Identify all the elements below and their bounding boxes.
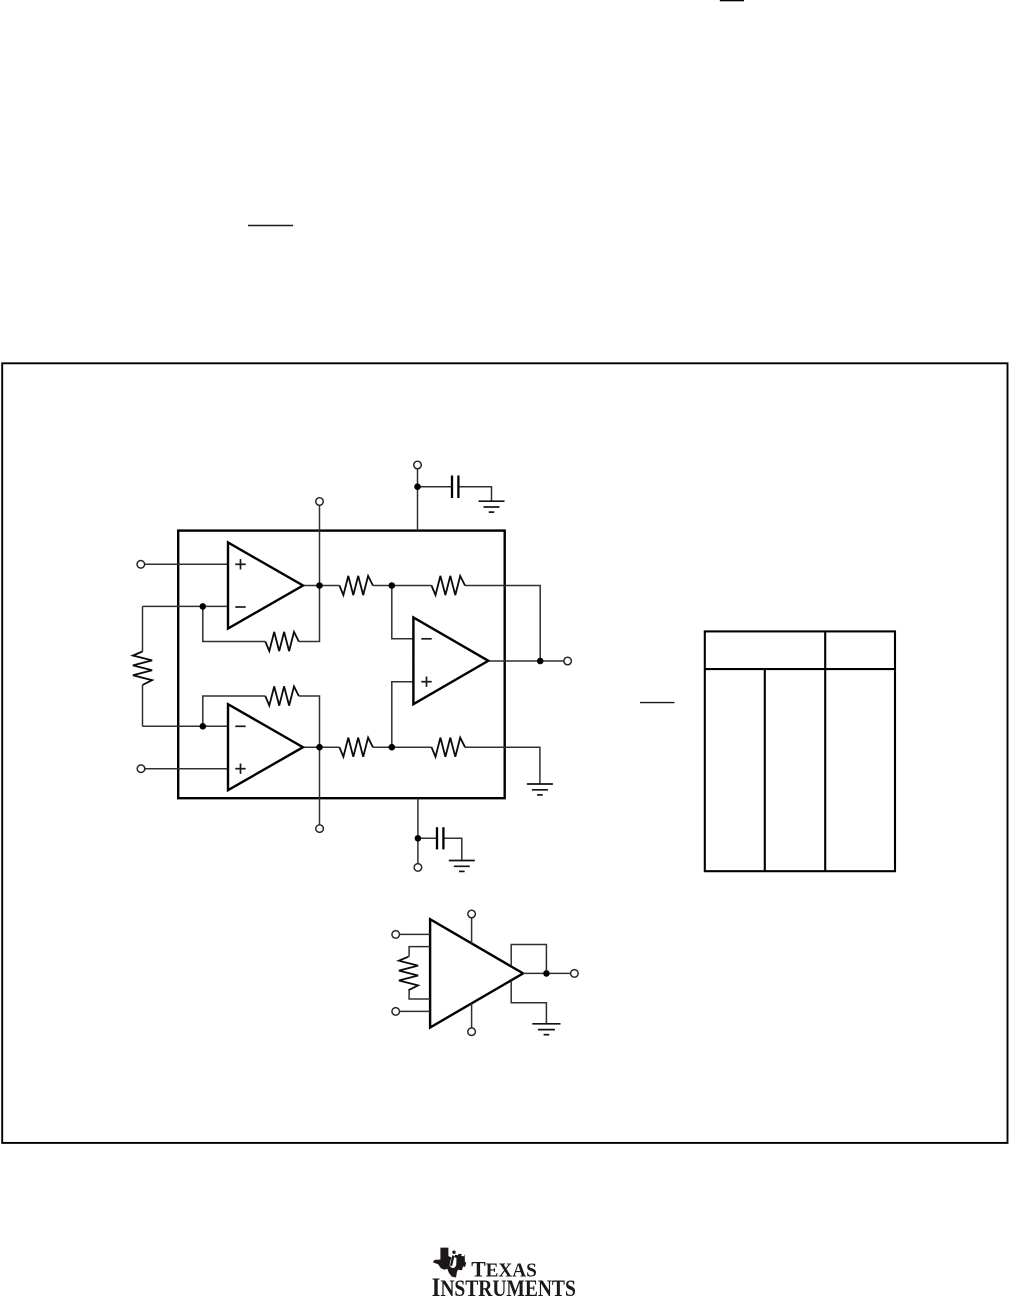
wire A3 output [488, 660, 564, 662]
wire A2 feedback loop [203, 696, 265, 726]
wire top terminal to A1 output node [319, 505, 321, 585]
op-amp A3 plus pin [421, 677, 431, 687]
terminal U2 IN- [392, 931, 400, 939]
wire node C segment [373, 746, 432, 748]
op-amp A1 [228, 543, 303, 629]
resistor RG [133, 652, 152, 686]
op-amp A3 [413, 617, 488, 704]
ground G2 (gnd cap) [449, 861, 475, 872]
wire gnd node to C2 [418, 837, 437, 839]
wire C1 to ground [458, 487, 491, 502]
figure frame [2, 363, 1007, 1143]
wire bottom terminal rail [319, 747, 321, 825]
junction node A2 output [316, 744, 323, 751]
wire U2 IN- [400, 933, 431, 935]
IC boundary box U1 [178, 531, 505, 799]
ground G4 (U2) [532, 1024, 560, 1035]
terminal U2 VDD [468, 910, 476, 918]
terminal V01 [316, 498, 324, 506]
junction node A2 inverting [200, 723, 207, 730]
wire IN2+ to A2 [145, 768, 229, 770]
wire U2 output [523, 972, 571, 974]
wire A2 inverting input [143, 725, 229, 727]
terminal IN2+ [137, 765, 145, 773]
wire RG bottom leg [142, 685, 144, 726]
overline mark (page header, cropped) [720, 0, 744, 1]
terminal IN1+ [137, 561, 145, 569]
op-amp U2 (application circuit) [430, 919, 523, 1027]
gain table [705, 631, 895, 871]
wire U2 VDD pin [471, 918, 473, 944]
wire bypass node to C1 [418, 486, 453, 488]
terminal U2 IN+ [392, 1008, 400, 1016]
capacitor C2 [437, 827, 443, 849]
wire RG top leg [142, 606, 144, 651]
capacitor C1 [452, 476, 458, 499]
op-amp A3 minus pin [421, 638, 431, 640]
junction node C [389, 744, 396, 751]
wire node B segment [373, 585, 432, 587]
terminal U2 GND [468, 1028, 476, 1036]
wire R6 to ground corner [465, 747, 540, 783]
resistor R6 [432, 738, 466, 757]
op-amp A1 plus pin [235, 559, 245, 569]
wire U2 ground leg [511, 981, 546, 1024]
wire RF bottom stub [409, 990, 430, 999]
terminal GND [414, 864, 422, 872]
ground G1 (bypass cap) [479, 501, 505, 512]
wire bypass terminal to IC [417, 469, 419, 531]
svg-text:INSTRUMENTS: INSTRUMENTS [432, 1273, 576, 1296]
wire RF top stub [409, 947, 430, 957]
resistor RF [399, 957, 418, 991]
op-amp A2 plus pin [235, 764, 245, 774]
junction node A1 output [316, 582, 323, 589]
wire A1 feedback loop [203, 606, 265, 641]
wire A2 feedback to output rail [299, 696, 320, 747]
wire A1 output [303, 585, 339, 587]
terminal VOUT [564, 657, 572, 665]
wire C2 to ground [443, 838, 461, 860]
terminal U2 VOUT [571, 970, 579, 978]
overline mark (body text) [248, 225, 293, 227]
wire R2 to feedback corner [465, 586, 540, 662]
wire A3 inverting input [392, 586, 414, 639]
wire A3 non-inverting input [392, 682, 414, 748]
Texas Instruments logo mark [433, 1248, 467, 1278]
resistor R1 [339, 576, 373, 595]
wire A1 inverting input [143, 605, 229, 607]
resistor R3 feedback A1 [265, 632, 299, 651]
wire gnd terminal to IC [417, 798, 419, 863]
resistor R2 [432, 576, 466, 595]
resistor R5 [339, 738, 373, 757]
junction node gnd pin [415, 835, 422, 842]
op-amp A2 [228, 704, 303, 790]
wire A2 output [303, 746, 339, 748]
ground G3 (R6 return) [527, 784, 553, 795]
wire U2 GND pin [471, 1003, 473, 1028]
junction node bypass [414, 483, 421, 490]
junction node B [389, 582, 396, 589]
junction node A1 inverting [200, 603, 207, 610]
terminal BYPASS [414, 461, 422, 469]
wire U2 IN+ [400, 1010, 431, 1012]
wire IN1+ to A1 [145, 563, 229, 565]
minus sign label (gain equation) [640, 702, 675, 704]
op-amp A2 minus pin [235, 725, 245, 727]
junction node A3 output [537, 658, 544, 665]
junction node U2 output [543, 970, 550, 977]
terminal V02 [316, 825, 324, 833]
wire U2 feedback top [511, 945, 546, 974]
wire A1 feedback to output rail [299, 586, 320, 642]
resistor R4 feedback A2 [265, 686, 299, 705]
op-amp A1 minus pin [235, 606, 245, 608]
